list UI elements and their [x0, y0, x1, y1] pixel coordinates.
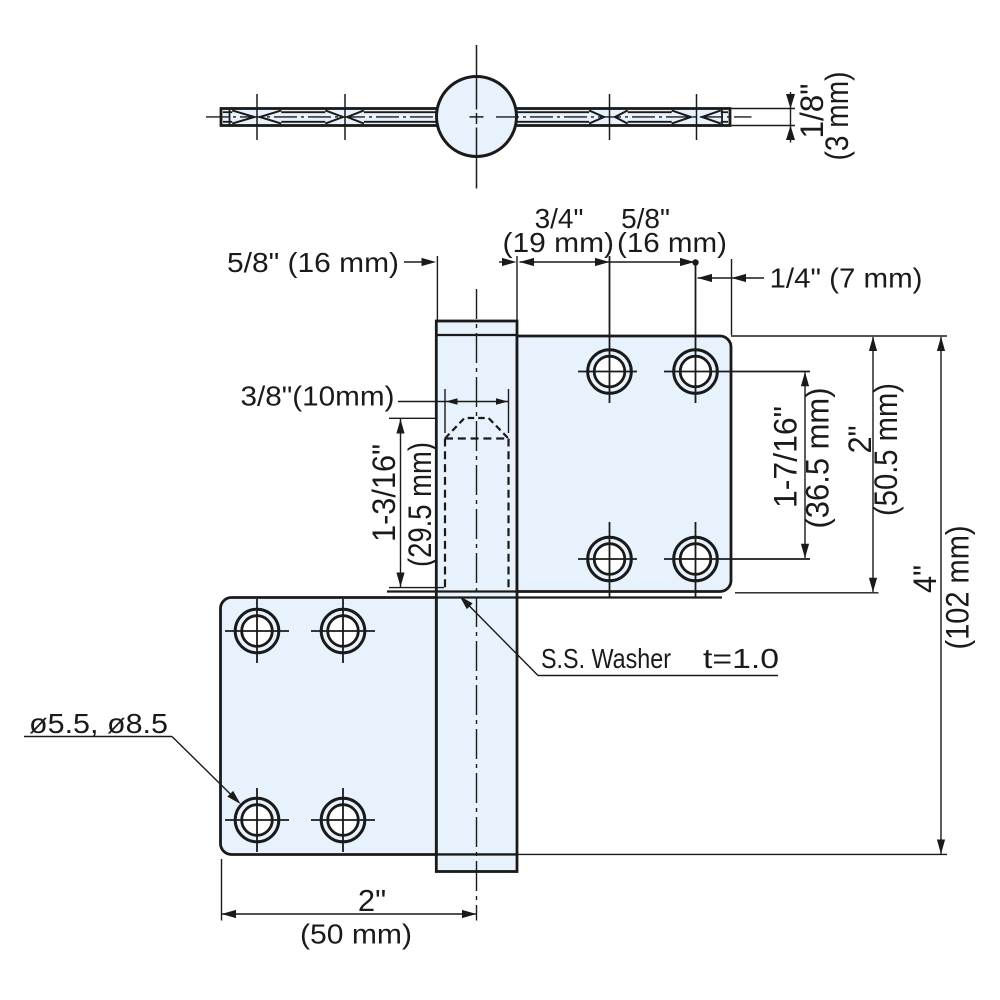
- pin dim tick lines: [445, 389, 509, 433]
- extension line bottom left: [221, 859, 223, 921]
- top view vertical centerline: [476, 45, 478, 189]
- barrel top cap line: [438, 334, 517, 336]
- horizontal centerline through knuckle circle: [470, 116, 752, 118]
- extension line pin top: [389, 417, 436, 419]
- svg-text:(19 mm): (19 mm): [503, 227, 615, 258]
- washer bottom line: [436, 596, 722, 598]
- svg-text:4": 4": [907, 565, 943, 593]
- barrel bottom cap line: [436, 853, 517, 855]
- bar inner edge lines: [223, 112, 728, 122]
- hinge pin barrel: [436, 321, 517, 872]
- extension line right plate edge top: [731, 259, 733, 335]
- extension line barrel left: [436, 256, 438, 320]
- underline S.S. Washer: [538, 675, 778, 677]
- bottom extension line for 4 inch dim: [517, 853, 947, 855]
- svg-text:1/4" (7 mm): 1/4" (7 mm): [770, 263, 923, 294]
- extension line 2 inch bottom: [735, 592, 879, 594]
- hole F upper-right of left leaf: [311, 599, 375, 663]
- dimension 1/8 inch arrows and line: [786, 92, 795, 143]
- hole H lower-right of left leaf: [311, 788, 375, 852]
- dimension line 1-3/16 inch: [396, 419, 404, 587]
- svg-text:t=1.0: t=1.0: [703, 643, 779, 674]
- dimension 1/4 inch arrows: [698, 274, 765, 282]
- svg-text:1-7/16": 1-7/16": [768, 406, 804, 508]
- bar end cap lines: [230, 110, 723, 125]
- extension line barrel right: [516, 256, 518, 320]
- extension line pin bottom: [389, 587, 444, 589]
- left hinge leaf: [221, 598, 437, 855]
- svg-text:(102 mm): (102 mm): [940, 526, 976, 650]
- arrow at barrel right (points right): [499, 258, 517, 266]
- svg-text:5/8" (16 mm): 5/8" (16 mm): [227, 247, 399, 278]
- pin knuckle circle (top view): [437, 77, 517, 157]
- hole B upper-right of right leaf: [664, 264, 810, 403]
- svg-text:(3 mm): (3 mm): [819, 72, 855, 161]
- svg-text:3/8"(10mm): 3/8"(10mm): [241, 381, 395, 412]
- hole C lower-left of right leaf: [578, 522, 637, 597]
- dimension line 3/8 inch: [398, 398, 509, 404]
- dimension line 3/4 inch with outward arrows: [520, 258, 610, 266]
- hole D lower-right of right leaf: [664, 522, 810, 597]
- svg-text:(50.5 mm): (50.5 mm): [868, 383, 904, 516]
- svg-text:2": 2": [358, 883, 386, 918]
- dimension line 4 inch: [937, 337, 945, 855]
- svg-text:1-3/16": 1-3/16": [366, 444, 402, 542]
- svg-text:(29.5 mm): (29.5 mm): [402, 442, 438, 567]
- washer top line: [387, 590, 517, 592]
- hidden pin hole dashed lines: [445, 418, 509, 591]
- underline hole diameters: [24, 736, 172, 738]
- dimension line 1-7/16 inch: [801, 372, 809, 559]
- right hinge leaf: [517, 336, 731, 592]
- leader line S.S. Washer: [460, 596, 539, 676]
- svg-text:(36.5 mm): (36.5 mm): [800, 388, 836, 529]
- dimension line 2 inch right: [869, 337, 877, 593]
- hole A upper-left of right leaf: [578, 256, 637, 403]
- knuckle chevrons: [232, 110, 721, 123]
- top view hinge bar (edge-on leaf): [221, 109, 730, 126]
- knuckle joint tick lines: [257, 94, 697, 140]
- leader arrow to barrel left edge: [404, 258, 436, 266]
- dimension 1/8 inch extension lines: [732, 109, 796, 126]
- hole E upper-left of left leaf: [225, 599, 289, 663]
- dimension line 5/8 inch to dot: [610, 258, 699, 266]
- top extension line for 2/4 inch dims: [731, 335, 947, 337]
- svg-text:(16 mm): (16 mm): [617, 227, 727, 258]
- hole G lower-left of left leaf: [225, 788, 289, 852]
- leader line hole diameters: [172, 737, 241, 805]
- svg-text:ø5.5, ø8.5: ø5.5, ø8.5: [29, 708, 168, 739]
- svg-text:(50 mm): (50 mm): [300, 919, 412, 950]
- dimension line 2 inch bottom: [222, 910, 477, 918]
- barrel vertical centerline: [476, 289, 478, 921]
- top view horizontal centerline: [206, 116, 457, 118]
- svg-text:S.S. Washer: S.S. Washer: [541, 643, 671, 674]
